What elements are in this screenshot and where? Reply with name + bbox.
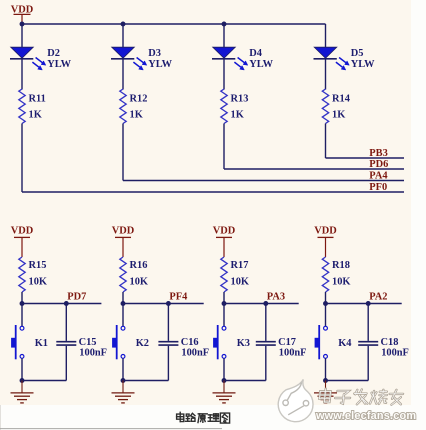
LED D2 [10,47,72,70]
svg-text:VDD: VDD [112,226,135,237]
svg-text:K2: K2 [136,338,149,349]
wire resistor R16 to node [122,292,124,326]
caption text 电路原理图 [177,412,230,423]
switch K2 [112,325,149,359]
svg-text:YLW: YLW [47,59,71,70]
svg-text:R15: R15 [29,260,47,271]
ground col3 [213,381,236,403]
svg-text:VDD: VDD [314,226,337,237]
wire bottom link col4 [326,380,369,382]
wire resistor R17 to node [223,292,225,326]
svg-text:10K: 10K [29,277,47,288]
node junction cap tap C16 [166,301,171,306]
resistor R15 10K [19,257,47,292]
svg-text:R18: R18 [332,260,350,271]
wire resistor R18 to node [325,292,327,326]
wire net PD6 bus line [224,168,404,170]
wire top VDD rail [22,23,326,25]
svg-text:D3: D3 [148,48,161,59]
svg-text:10K: 10K [130,277,148,288]
wire switch K2 bottom to ground rail [122,358,124,380]
svg-text:R14: R14 [332,93,350,104]
svg-text:PA3: PA3 [267,291,285,302]
node rail junction col1 [20,22,25,27]
node bottom junction col2 [121,378,126,383]
page edge lines [0,405,2,430]
svg-text:PD7: PD7 [67,291,86,302]
watermark text 电子发烧友 [319,389,403,405]
node junction col4 [323,301,328,306]
svg-text:100nF: 100nF [279,347,307,358]
wire LED to resistor R12 [122,59,124,90]
svg-text:PA2: PA2 [369,291,387,302]
ground col4 [314,381,337,403]
svg-text:R12: R12 [130,93,148,104]
capacitor C16 100nF [158,304,209,381]
wire net PA4 bus line [123,180,404,182]
node junction col1 [20,301,25,306]
wire resistor R14 down to bus [325,124,327,159]
svg-text:D4: D4 [249,48,262,59]
ground col2 [112,381,135,403]
wire LED to resistor R11 [21,59,23,90]
node junction cap tap C15 [64,301,69,306]
wire switch K4 bottom to ground rail [325,358,327,380]
svg-text:1K: 1K [231,110,244,121]
svg-text:YLW: YLW [148,59,172,70]
svg-text:R11: R11 [29,93,46,104]
switch K3 [213,325,250,359]
capacitor C18 100nF [358,304,409,381]
wire net stub PF4 [123,303,204,305]
LED D4 [212,47,274,70]
switch K1 [11,325,48,359]
svg-text:VDD: VDD [213,226,236,237]
wire rail to LED D2 [21,24,23,47]
svg-text:PA4: PA4 [369,171,387,182]
switch K4 [315,325,352,359]
node bottom junction col3 [222,378,227,383]
node junction cap tap C18 [366,301,371,306]
svg-text:VDD: VDD [11,226,34,237]
power symbol VDD col4 bottom [314,226,337,257]
svg-text:K4: K4 [338,338,351,349]
svg-text:PD6: PD6 [369,159,388,170]
resistor R16 10K [120,257,148,292]
node rail junction col2 [121,22,126,27]
svg-text:1K: 1K [332,110,345,121]
wire resistor R11 down to bus [21,124,23,193]
wire rail to LED D4 [223,24,225,47]
wire LED to resistor R14 [325,59,327,90]
node junction col2 [121,301,126,306]
svg-text:D5: D5 [351,48,364,59]
wire rail to LED D3 [122,24,124,47]
wire resistor R12 down to bus [122,124,124,181]
wire resistor R13 down to bus [223,124,225,170]
resistor R14 1K [322,89,350,124]
wire switch K1 bottom to ground rail [21,358,23,380]
svg-text:100nF: 100nF [381,347,409,358]
wire bottom link col2 [123,380,168,382]
svg-text:D2: D2 [47,48,60,59]
svg-text:R16: R16 [130,260,148,271]
wire net stub PD7 [22,303,101,305]
svg-text:R13: R13 [231,93,249,104]
svg-text:1K: 1K [130,110,143,121]
svg-text:K1: K1 [35,338,48,349]
wire switch K3 bottom to ground rail [223,358,225,380]
svg-text:C16: C16 [181,337,199,348]
svg-text:10K: 10K [231,277,249,288]
svg-text:C17: C17 [278,337,296,348]
svg-text:PF0: PF0 [369,182,387,193]
wire resistor R15 to node [21,292,23,326]
svg-text:10K: 10K [332,277,350,288]
ground col1 [11,381,34,403]
capacitor C17 100nF [256,304,307,381]
resistor R12 1K [120,89,148,124]
svg-text:1K: 1K [29,110,42,121]
wire LED to resistor R13 [223,59,225,90]
svg-text:C18: C18 [381,337,399,348]
wire net PF0 bus line [22,191,404,193]
svg-text:K3: K3 [237,338,250,349]
wire rail to LED D5 [325,24,327,47]
svg-text:YLW: YLW [351,59,375,70]
wire net PB3 bus line [326,157,405,159]
resistor R17 10K [221,257,249,292]
wire net stub PA2 [326,303,402,305]
watermark logo elecfans [278,379,313,421]
svg-text:www.elecfans.com: www.elecfans.com [315,410,416,422]
svg-text:C15: C15 [79,337,97,348]
node bottom junction col1 [20,378,25,383]
node junction cap tap C17 [263,301,268,306]
capacitor C15 100nF [56,304,107,381]
wire net stub PA3 [224,303,299,305]
power symbol VDD col1 bottom [11,226,34,257]
LED D3 [111,47,173,70]
LED D5 [314,47,376,70]
node bottom junction col4 [323,378,328,383]
svg-text:PB3: PB3 [369,148,387,159]
svg-text:PF4: PF4 [169,291,187,302]
svg-text:YLW: YLW [249,59,273,70]
power symbol VDD top [11,4,34,24]
node junction col3 [222,301,227,306]
power symbol VDD col2 bottom [112,226,135,257]
svg-text:100nF: 100nF [181,347,209,358]
svg-text:R17: R17 [231,260,249,271]
wire bottom link col3 [224,380,266,382]
power symbol VDD col3 bottom [213,226,236,257]
svg-text:100nF: 100nF [79,347,107,358]
wire bottom link col1 [22,380,66,382]
node rail junction col3 [222,22,227,27]
resistor R13 1K [221,89,249,124]
resistor R18 10K [322,257,350,292]
resistor R11 1K [19,89,46,124]
